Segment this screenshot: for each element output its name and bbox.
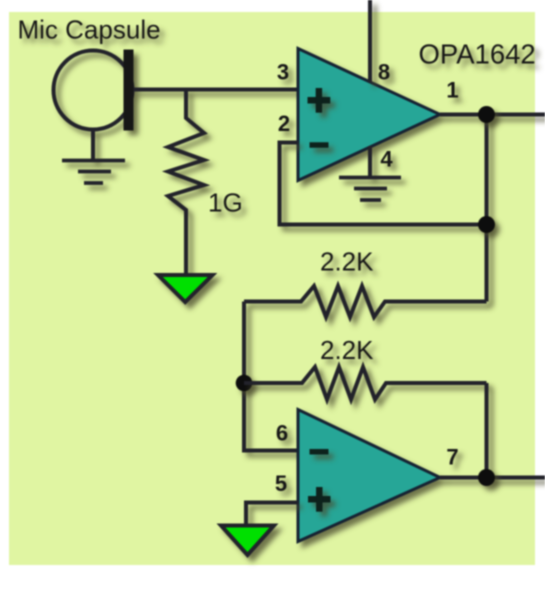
svg-text:2.2K: 2.2K xyxy=(320,335,374,365)
svg-text:3: 3 xyxy=(277,60,289,85)
pin 7 label xyxy=(446,445,458,470)
label 2.2K (R3) xyxy=(320,335,374,365)
svg-text:6: 6 xyxy=(276,421,288,446)
label 1G xyxy=(208,188,243,218)
wire R3 right down to output xyxy=(485,383,489,478)
op-amp U1A minus xyxy=(310,142,329,148)
ground arrow (pin 5) xyxy=(221,526,274,556)
op-amp U1B minus xyxy=(310,449,329,455)
svg-text:Mic Capsule: Mic Capsule xyxy=(18,15,161,45)
ground arrow (below R1) xyxy=(158,275,213,302)
svg-text:7: 7 xyxy=(446,445,458,470)
node junction pin1 xyxy=(478,106,495,123)
svg-text:1: 1 xyxy=(446,78,458,103)
pin 2 label xyxy=(278,111,290,136)
wire mic to pin 3 xyxy=(134,88,298,92)
op-amp U1A plus xyxy=(308,88,331,113)
pin 1 label xyxy=(446,78,458,103)
svg-text:4: 4 xyxy=(380,147,393,172)
wire left branch to pin 6 xyxy=(244,302,298,451)
op-amp U1A triangle xyxy=(298,49,440,181)
wire output pin 1 xyxy=(440,113,545,117)
label OPA1642 xyxy=(419,38,536,69)
mic capsule MK1 xyxy=(54,50,134,161)
op-amp U1B plus xyxy=(308,487,331,512)
ground (mic) xyxy=(62,161,125,184)
wire pin 4 to ground xyxy=(368,146,372,178)
wire pin 5 to ground arrow xyxy=(246,503,298,528)
op-amp U1B triangle xyxy=(298,410,440,542)
svg-text:2.2K: 2.2K xyxy=(320,247,374,277)
label 2.2K (R2) xyxy=(320,247,374,277)
pin 4 label xyxy=(380,147,393,172)
pin 6 label xyxy=(276,421,288,446)
pin 3 label xyxy=(277,60,289,85)
wire pin 8 supply xyxy=(368,0,372,82)
svg-text:1G: 1G xyxy=(208,188,243,218)
node junction pin7 xyxy=(478,469,495,486)
wire output pin 7 xyxy=(440,476,545,480)
wire output down to R2 xyxy=(485,115,489,302)
node junction feedback xyxy=(478,216,495,233)
node junction R3 left xyxy=(236,375,253,392)
svg-text:5: 5 xyxy=(275,471,287,496)
resistor R1 1G xyxy=(168,90,204,276)
svg-text:OPA1642: OPA1642 xyxy=(419,38,536,69)
label Mic Capsule xyxy=(18,15,161,45)
pin 5 label xyxy=(275,471,287,496)
wire feedback pin 2 xyxy=(280,143,487,225)
ground (pin 4) xyxy=(339,178,401,201)
resistor R2 2.2K xyxy=(244,286,487,317)
svg-text:2: 2 xyxy=(278,111,290,136)
svg-text:8: 8 xyxy=(378,60,390,85)
pin 8 label xyxy=(378,60,390,85)
resistor R3 2.2K xyxy=(244,367,487,400)
